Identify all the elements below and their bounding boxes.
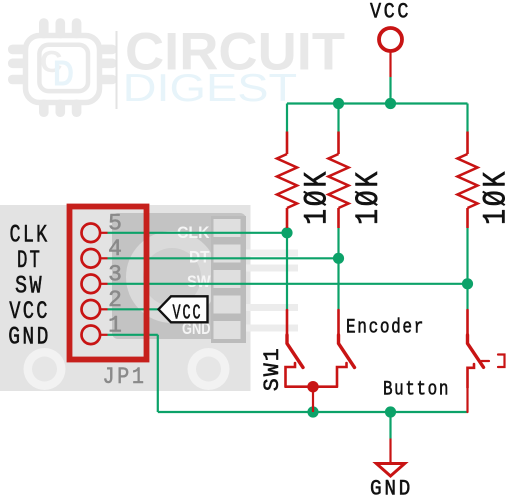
pin 3 bbox=[82, 275, 101, 294]
watermark divider bbox=[116, 31, 118, 109]
junction node GND rail symbol bbox=[385, 406, 396, 417]
ground symbol GND bbox=[376, 439, 404, 477]
resistor R2 10K bbox=[329, 132, 349, 229]
watermark encoder body bbox=[112, 213, 246, 339]
svg-text:JP1: JP1 bbox=[103, 364, 147, 391]
wire VCC top rail bbox=[287, 102, 468, 104]
junction node GND rail SW1 common bbox=[307, 406, 318, 417]
svg-text:D: D bbox=[53, 53, 74, 94]
svg-text:GND: GND bbox=[370, 477, 413, 500]
svg-text:1: 1 bbox=[108, 312, 122, 338]
svg-text:DT: DT bbox=[189, 248, 210, 267]
wire R1 bottom stub bbox=[286, 228, 288, 233]
button actuator cap bbox=[498, 355, 505, 368]
button actuator rod bbox=[482, 360, 490, 362]
svg-text:GND: GND bbox=[8, 322, 51, 351]
svg-text:SW: SW bbox=[187, 272, 211, 291]
pin 4 bbox=[82, 249, 101, 268]
wire pin2 to VCC flag bbox=[108, 308, 159, 310]
svg-text:1ØK: 1ØK bbox=[478, 169, 515, 225]
switch SW1 encoder contact A bbox=[286, 310, 304, 387]
watermark pin legs bbox=[246, 250, 298, 257]
connector JP1 pins bbox=[82, 224, 108, 345]
wire VCC symbol drop bbox=[389, 77, 391, 104]
svg-text:4: 4 bbox=[108, 236, 122, 262]
junction node VCC rail R2 bbox=[333, 98, 344, 109]
wire pin1 GND vertical drop bbox=[157, 335, 159, 412]
svg-text:VCC: VCC bbox=[370, 0, 411, 25]
wire rail to R1 top bbox=[286, 104, 288, 132]
power symbol VCC bbox=[379, 28, 402, 77]
wire R3 node down to button bbox=[466, 284, 468, 310]
wire R2 node down to switch B bbox=[337, 258, 339, 310]
switch SW1 encoder contact B bbox=[337, 310, 355, 387]
resistor R1 10K bbox=[277, 132, 297, 229]
wire rail to R2 top bbox=[337, 104, 339, 132]
svg-text:DIGEST: DIGEST bbox=[123, 67, 298, 110]
wire SW1 common to GND rail bbox=[312, 387, 314, 412]
wire net DT pin4 to R2 bottom bbox=[108, 257, 339, 259]
svg-text:1ØK: 1ØK bbox=[350, 169, 387, 225]
junction node VCC rail feed bbox=[385, 98, 396, 109]
wire rail to R3 top bbox=[466, 104, 468, 132]
pin 1 bbox=[82, 326, 101, 345]
connector JP1 box bbox=[70, 207, 147, 360]
wire R1 node down to switch A bbox=[286, 233, 288, 310]
wire GND bottom rail bbox=[158, 411, 468, 413]
resistor R3 10K bbox=[458, 132, 478, 229]
watermark module photo board bbox=[0, 205, 298, 391]
junction node CLK/R1 bbox=[281, 227, 292, 238]
svg-text:5: 5 bbox=[108, 210, 122, 236]
watermark header block bbox=[211, 216, 246, 343]
svg-text:1ØK: 1ØK bbox=[299, 169, 336, 225]
svg-text:Button: Button bbox=[383, 379, 450, 402]
svg-text:3: 3 bbox=[108, 261, 122, 287]
wire R3 bottom stub bbox=[466, 228, 468, 284]
svg-text:Encoder: Encoder bbox=[346, 317, 425, 340]
switch button (encoder push) bbox=[468, 310, 505, 412]
watermark chip logo bbox=[8, 18, 117, 117]
wire R2 bottom stub bbox=[337, 228, 339, 258]
wire net SW pin3 to R3 bottom bbox=[108, 283, 468, 285]
junction node SW/R3 bbox=[462, 278, 473, 289]
svg-text:2: 2 bbox=[108, 287, 122, 313]
watermark mounting holes bbox=[24, 348, 66, 390]
wire SW1 common bar bbox=[286, 385, 338, 388]
power flag VCC at pin2 bbox=[159, 296, 208, 325]
junction node DT/R2 bbox=[333, 253, 344, 264]
pin 2 bbox=[82, 300, 101, 319]
junction node SW1 common bbox=[307, 381, 318, 392]
wire pin1 GND horizontal bbox=[108, 334, 158, 336]
wire net CLK pin5 to R1 bottom bbox=[108, 232, 288, 234]
svg-text:SW1: SW1 bbox=[260, 346, 285, 391]
pin 5 bbox=[82, 224, 101, 243]
wire GND symbol drop bbox=[389, 412, 391, 439]
svg-text:VCC: VCC bbox=[173, 302, 203, 325]
